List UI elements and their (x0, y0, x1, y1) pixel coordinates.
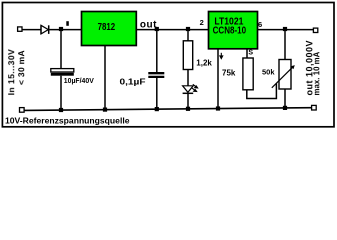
reference U2 LT1021 CCN8-10 (209, 12, 258, 49)
svg-text:CCN8-10: CCN8-10 (213, 26, 247, 37)
svg-text:10µF/40V: 10µF/40V (64, 76, 94, 85)
node D input terminal (18, 27, 22, 31)
node junction dot (0.1uF tap) (155, 27, 159, 31)
wire D to diode (22, 29, 41, 31)
capacitor C2 0.1uF (156, 30, 158, 73)
LED D2 (187, 70, 189, 86)
svg-text:75k: 75k (222, 68, 236, 77)
svg-text:max. 10 mA: max. 10 mA (312, 51, 321, 95)
node ground terminal right (312, 105, 317, 110)
wire 7812 out to LT1021 (136, 29, 208, 31)
svg-text:50k: 50k (262, 67, 275, 76)
capacitor C1 10uF/40V (60, 30, 62, 69)
svg-text:7812: 7812 (98, 22, 116, 33)
potentiometer R3 50k (284, 30, 286, 60)
wire LT1021 pin6 to output (258, 29, 314, 31)
border frame (2, 3, 334, 127)
svg-text:6: 6 (258, 20, 262, 29)
wire LT1021 pin4 gnd (217, 49, 219, 109)
wire 7812 gnd (104, 46, 106, 110)
label in (66, 21, 69, 26)
svg-text:S: S (248, 50, 253, 57)
node junction dot (10uF tap) (59, 27, 63, 31)
resistor R1 1.2k (187, 30, 189, 41)
label pin4 down-arrow (220, 53, 223, 59)
regulator U1 7812 (82, 12, 137, 46)
svg-text:0,1µF: 0,1µF (120, 77, 146, 86)
wiper arrow (272, 67, 293, 88)
node ground terminal left (20, 108, 25, 113)
ground rail (24, 108, 312, 111)
node output terminal (313, 28, 317, 32)
diode D1 (41, 25, 49, 34)
svg-text:< 30 mA: < 30 mA (16, 50, 26, 85)
svg-text:In 15...30V: In 15...30V (6, 49, 16, 96)
wire LT1021 trim pin (246, 49, 248, 58)
resistor R2 75k (243, 58, 253, 90)
wire diode to 7812 (49, 29, 81, 31)
node junction dot (LED tap) (186, 27, 190, 31)
svg-text:2: 2 (200, 18, 204, 27)
node junction dot (pot top) (283, 27, 287, 31)
svg-text:10V-Referenzspannungsquelle: 10V-Referenzspannungsquelle (5, 115, 130, 125)
svg-text:1,2k: 1,2k (196, 59, 212, 68)
node rail junction dots (59, 106, 287, 112)
wire 75k to wiper (247, 84, 277, 99)
